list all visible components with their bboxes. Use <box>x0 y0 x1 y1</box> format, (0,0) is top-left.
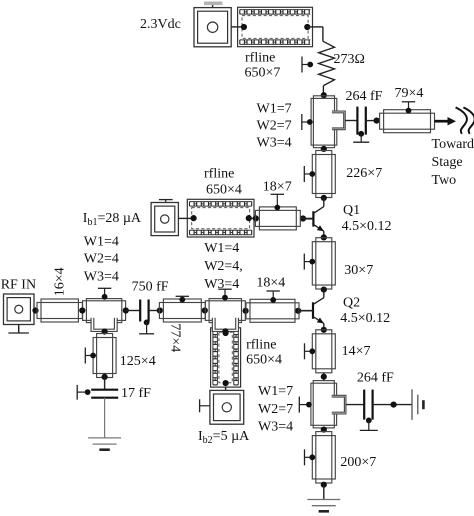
pin of capacitor C3 <box>76 385 78 400</box>
svg-text:16×4: 16×4 <box>53 267 68 296</box>
svg-text:125×4: 125×4 <box>120 354 156 369</box>
node dot TL10 bottom <box>102 374 108 380</box>
svg-text:79×4: 79×4 <box>395 86 424 101</box>
microstrip TL9 18x4 <box>246 303 299 319</box>
resistor R1 273ohm zigzag <box>319 41 335 85</box>
pin of TL5 <box>304 449 306 465</box>
output arrow <box>435 120 449 123</box>
svg-text:Ib2=5 µA: Ib2=5 µA <box>198 429 250 446</box>
wire C2 to TL8 <box>149 310 160 312</box>
svg-text:Towards: Towards <box>432 137 474 152</box>
svg-text:Q1: Q1 <box>343 203 360 218</box>
microstrip TL1 79x4 <box>380 113 435 129</box>
current source port Ib2 <box>210 390 244 424</box>
tee T3 MTEE input junction <box>83 301 126 321</box>
node dot tee T1 bottom <box>321 146 327 152</box>
wire rfline1 to resistor R1 <box>308 26 323 28</box>
capacitor C2 750 fF <box>139 300 141 322</box>
svg-text:W1=4: W1=4 <box>84 235 119 250</box>
pin of tee T4 <box>218 288 231 290</box>
microstrip TL7 16x4 <box>37 303 82 319</box>
svg-text:W3=4: W3=4 <box>84 270 119 285</box>
svg-text:17 fF: 17 fF <box>121 386 151 401</box>
pin of tee T3 <box>98 287 111 289</box>
wire rfline3 to Ib2 port <box>225 387 227 390</box>
node dot Q2 base <box>295 308 301 314</box>
node dot Q1 base <box>300 215 306 221</box>
pin ground above Ib1 port <box>159 199 173 201</box>
svg-text:14×7: 14×7 <box>342 344 371 359</box>
rfline3 650x4 base feed Q2 vertical <box>211 328 241 387</box>
tee T4 MTEE base junction <box>205 301 245 321</box>
wire TL4 to tee T2 <box>323 373 325 381</box>
svg-text:Two: Two <box>432 173 457 188</box>
svg-text:77×4: 77×4 <box>168 323 183 352</box>
node dot tee T4 right <box>243 308 249 314</box>
capacitor C3 17 fF <box>91 389 118 391</box>
microstrip TL4 14x7 <box>316 330 332 373</box>
pin of tee T1 <box>301 114 303 130</box>
node dot Q1 collector <box>321 195 327 201</box>
pin of TL3 <box>303 254 305 270</box>
svg-text:W1=7: W1=7 <box>257 102 292 117</box>
capacitor C1 264 fF <box>356 107 358 135</box>
microstrip TL10 125x4 <box>97 334 113 378</box>
node dot tee T2 top <box>321 374 327 380</box>
rfline1 650x7 collector feed <box>238 7 313 46</box>
rfline2 650x4 base feed Q1 <box>187 199 254 237</box>
microstrip TL5 200x7 <box>316 432 332 483</box>
svg-text:W2=7: W2=7 <box>257 119 292 134</box>
svg-text:273Ω: 273Ω <box>334 52 365 67</box>
svg-text:650×4: 650×4 <box>246 353 282 368</box>
svg-text:650×7: 650×7 <box>245 66 281 81</box>
wire TL6 to Q1 base <box>300 217 313 219</box>
svg-text:4.5×0.12: 4.5×0.12 <box>342 219 392 234</box>
svg-text:18×4: 18×4 <box>256 276 285 291</box>
svg-text:Ib1=28 µA: Ib1=28 µA <box>83 211 142 228</box>
svg-text:2.3Vdc: 2.3Vdc <box>140 17 181 32</box>
ground flag above 2.3Vdc source <box>204 2 223 6</box>
svg-text:W2=4,: W2=4, <box>204 259 243 274</box>
pin of tee T2 <box>298 397 300 413</box>
wire TL10 to capacitor C3 <box>104 377 106 390</box>
wire TL9 to Q2 base <box>299 310 313 312</box>
pin left of Ib2 port <box>199 399 201 412</box>
wire C4 to ground <box>373 404 412 406</box>
wire R1 to tee T1 <box>322 86 324 96</box>
transistor Q2 <box>312 302 314 319</box>
wire C1 to mlin TL1 <box>366 120 380 122</box>
svg-text:4.5×0.12: 4.5×0.12 <box>340 311 390 326</box>
node dot TL5 bottom <box>321 482 327 488</box>
microstrip TL2 226x7 <box>316 151 332 198</box>
node dot TL8 to tee T4 <box>202 307 208 313</box>
svg-text:rfline: rfline <box>246 338 276 353</box>
ground below TL5 <box>307 499 340 501</box>
node dot tee T2 bottom <box>321 427 327 433</box>
pin of capacitor C2 <box>144 320 150 326</box>
svg-text:W3=4: W3=4 <box>204 277 239 292</box>
microstrip TL6 18x7 <box>255 210 300 226</box>
svg-text:226×7: 226×7 <box>346 166 382 181</box>
rotated ground at C4 <box>411 389 413 420</box>
input port RF IN <box>4 294 35 325</box>
wire tee T3 to capacitor C2 <box>126 310 140 312</box>
capacitor C4 264 fF <box>363 390 365 420</box>
transistor Q1 <box>312 211 314 226</box>
svg-text:rfline: rfline <box>245 51 275 66</box>
wire tee T2 to capacitor C4 <box>346 404 364 406</box>
pin of TL6 <box>271 193 284 195</box>
svg-text:W3=4: W3=4 <box>257 136 292 151</box>
pin of TL10 <box>84 348 86 364</box>
pin of TL8 <box>176 295 189 297</box>
wire rfline2 to TL6 <box>249 217 256 219</box>
pin of capacitor C4 <box>366 418 372 424</box>
svg-text:264 fF: 264 fF <box>357 371 394 386</box>
wire tee T3 stem to TL10 <box>104 332 106 334</box>
svg-text:750 fF: 750 fF <box>132 280 169 295</box>
tee T1 MTEE collector junction <box>313 96 334 148</box>
svg-text:264 fF: 264 fF <box>346 89 383 104</box>
ground stub below RF IN port <box>18 325 20 333</box>
svg-text:18×7: 18×7 <box>263 179 292 194</box>
wire V1 to rfline1 <box>231 26 241 28</box>
svg-text:Q2: Q2 <box>343 296 360 311</box>
node dot RF IN output <box>32 307 38 313</box>
pin of TL1 <box>402 101 415 103</box>
pin of capacitor C1 <box>358 131 364 137</box>
svg-text:W2=7: W2=7 <box>258 402 293 417</box>
node dot tee T1 top <box>321 92 327 98</box>
pin of TL2 <box>303 166 305 182</box>
DC voltage source port V1 2.3Vdc <box>194 8 231 47</box>
wire C3 to ground <box>104 398 106 438</box>
current source port Ib1 <box>151 203 178 236</box>
wire TL5 to ground <box>323 485 325 500</box>
pin of TL9 <box>267 290 280 292</box>
svg-text:200×7: 200×7 <box>340 455 376 470</box>
svg-text:RF IN: RF IN <box>1 278 36 293</box>
ground below C3 <box>88 437 121 439</box>
node dot tee T4 stem <box>222 328 228 334</box>
svg-text:W3=4: W3=4 <box>258 420 293 435</box>
svg-text:rfline: rfline <box>204 167 234 182</box>
microstrip TL3 30x7 <box>316 238 332 289</box>
node dots tee T3 <box>79 307 85 313</box>
break marks towards stage two <box>456 107 467 133</box>
microstrip TL8 77x4 <box>159 303 205 319</box>
wire Ib1 to rfline2 <box>178 217 192 219</box>
svg-text:W1=4: W1=4 <box>204 241 239 256</box>
node dot Q1 emitter <box>321 234 327 240</box>
node dot Q2 emitter <box>321 327 327 333</box>
pin of TL4 <box>304 343 306 359</box>
svg-text:W2=4: W2=4 <box>84 252 119 267</box>
node dot Q2 collector <box>321 287 327 293</box>
wire tee T1 to capacitor C1 <box>345 120 357 122</box>
pin of resistor R1 <box>301 57 303 73</box>
svg-text:30×7: 30×7 <box>344 263 373 278</box>
svg-text:Stage: Stage <box>432 155 463 170</box>
svg-text:650×4: 650×4 <box>206 183 242 198</box>
tee T2 MTEE output junction <box>313 381 334 428</box>
svg-text:W1=7: W1=7 <box>258 384 293 399</box>
